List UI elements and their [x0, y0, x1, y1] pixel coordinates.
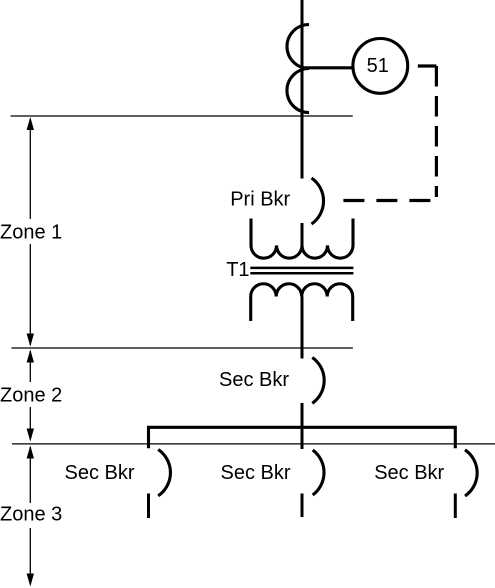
zone 2 arrow head down	[27, 429, 34, 442]
bus: secondary switchgear bus with end drops	[149, 427, 456, 448]
relay 51 circle	[353, 39, 408, 94]
zone 3 arrow head up	[27, 446, 34, 459]
transformer T1 core line 2	[250, 272, 353, 275]
zone 2 arrow head up	[27, 350, 34, 363]
breaker Sec Bkr feeder 3 arc	[465, 450, 477, 496]
wire: Sec Bkr through bus to feeder 2 breaker	[301, 403, 304, 449]
breaker Pri Bkr arc	[312, 178, 324, 224]
svg-text:Zone 3: Zone 3	[0, 503, 62, 525]
label Zone 1 (white box over shaft)	[0, 219, 62, 244]
transformer T1 core line 1	[250, 267, 353, 270]
zone 2 extent arrow shaft	[29, 351, 31, 440]
transformer T1 secondary winding	[251, 284, 353, 321]
breaker Sec Bkr feeder 2 arc	[313, 450, 324, 495]
dashed control wire: corner down leg (vertical)	[435, 66, 438, 197]
svg-text:Sec Bkr: Sec Bkr	[65, 462, 135, 484]
svg-text:Zone 1: Zone 1	[0, 222, 62, 244]
label Zone 2 (white box over shaft)	[0, 382, 63, 407]
svg-text:Zone 2: Zone 2	[0, 385, 62, 407]
breaker Sec Bkr feeder 1 arc	[158, 450, 170, 496]
zone 1 extent arrow shaft	[29, 119, 31, 345]
zone boundary line 1 (Zone1/utility)	[11, 115, 353, 117]
svg-text:Sec Bkr: Sec Bkr	[221, 462, 291, 484]
CT arc 1	[287, 25, 309, 69]
dashed control wire: relay 51 to corner (horizontal)	[410, 64, 437, 67]
wire: Pri Bkr to transformer T1 primary	[301, 223, 304, 247]
wire: feeder 3 load stub	[454, 494, 457, 519]
svg-text:T1: T1	[226, 259, 249, 281]
zone 3 arrow head down	[27, 574, 34, 587]
svg-text:Pri Bkr: Pri Bkr	[230, 189, 290, 211]
zone 1 arrow head down	[27, 334, 34, 347]
breaker Sec Bkr (transformer secondary main) arc	[312, 358, 324, 404]
zone 3 extent arrow shaft	[29, 447, 31, 584]
wire: utility feeder into Pri Bkr	[301, 0, 304, 179]
svg-text:Sec Bkr: Sec Bkr	[219, 369, 289, 391]
zone boundary line 2 (Zone1/Zone2)	[12, 347, 353, 349]
svg-text:Sec Bkr: Sec Bkr	[374, 462, 444, 484]
wire: transformer secondary to Sec Bkr	[301, 297, 304, 359]
CT arc 2	[287, 69, 309, 113]
dashed control wire: bottom leg to Pri Bkr (horizontal)	[342, 199, 436, 202]
wire: CT secondary to relay 51	[302, 66, 353, 69]
wire: feeder 1 load stub	[147, 494, 150, 519]
wire: feeder 2 load stub	[301, 494, 304, 518]
label Zone 3 (white box over shaft)	[0, 503, 63, 528]
zone boundary line 3 (Zone2/Zone3)	[12, 443, 495, 445]
transformer T1 primary winding	[251, 219, 353, 259]
svg-text:51: 51	[367, 55, 389, 77]
zone 1 arrow head up	[27, 117, 34, 130]
